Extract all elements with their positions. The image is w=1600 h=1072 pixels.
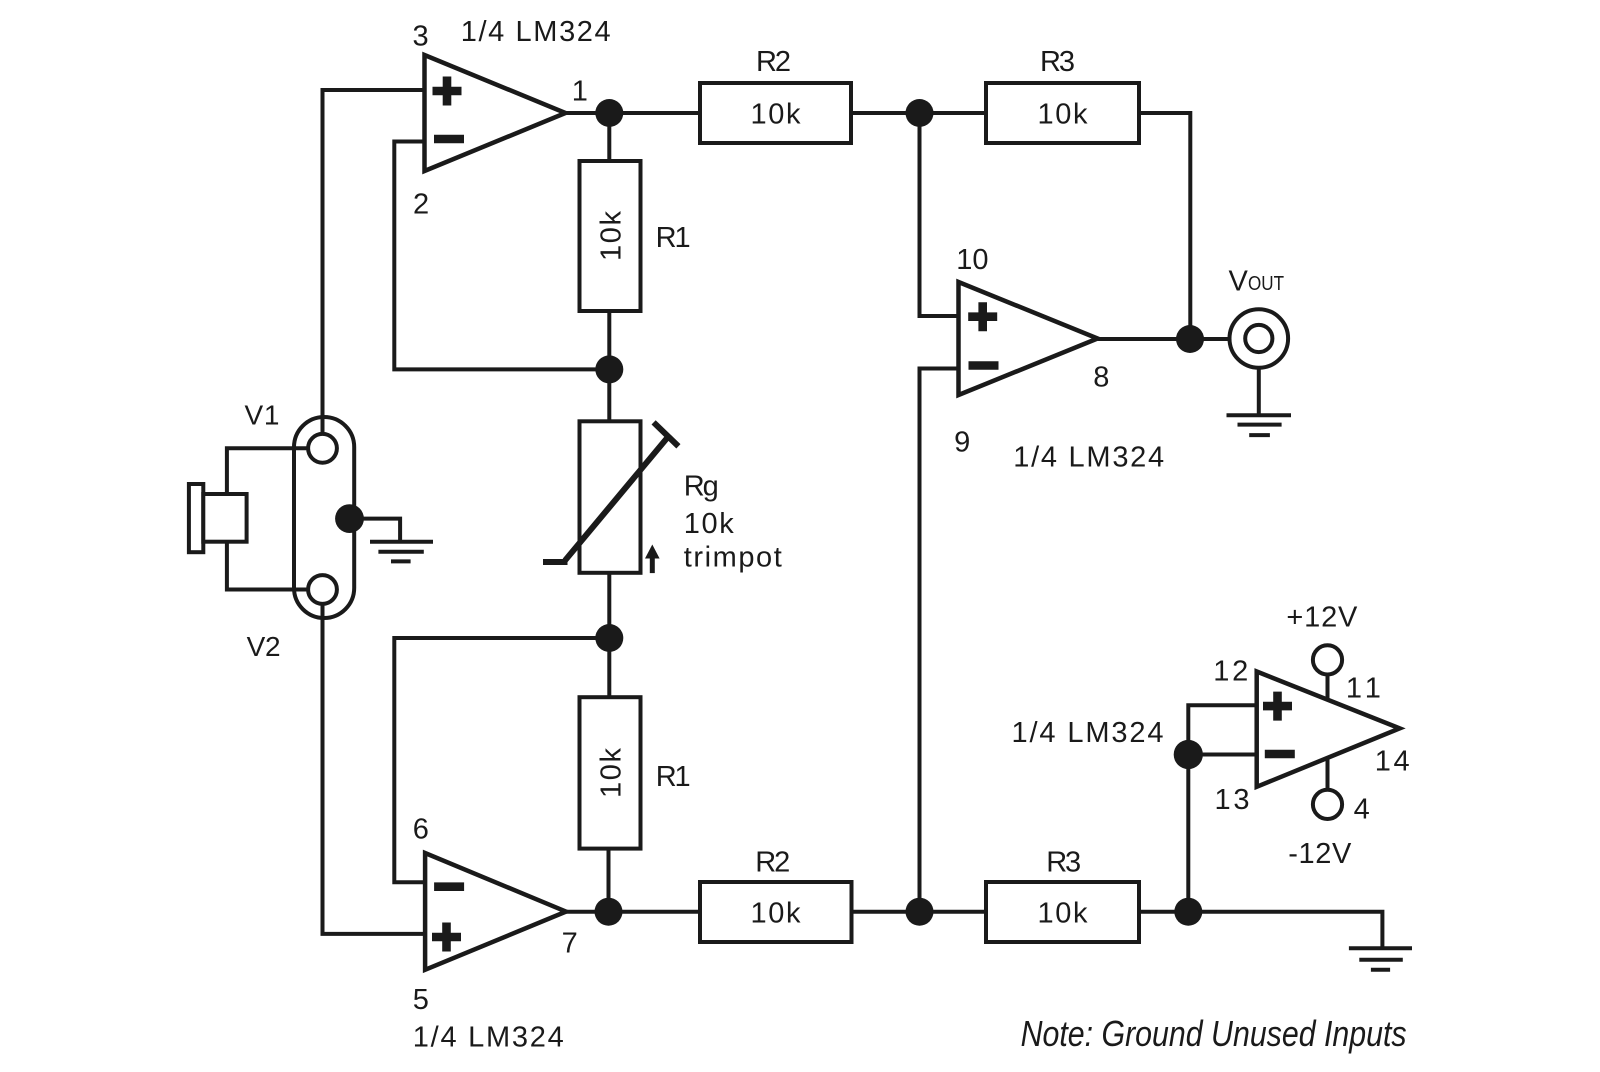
op-amp U1A + symbol — [433, 77, 462, 106]
svg-text:1/4 LM324: 1/4 LM324 — [461, 16, 611, 48]
resistor R3 lower box — [986, 882, 1139, 942]
wire op-amp U1A output pin 1 — [566, 111, 701, 115]
resistor R2 upper box — [700, 83, 851, 143]
terminal V1 — [308, 434, 337, 463]
svg-text:Rg: Rg — [684, 470, 719, 502]
transducer plate — [189, 484, 203, 552]
svg-text:3: 3 — [413, 21, 429, 53]
wire op-amp U1B output pin 7 to R2 — [566, 910, 700, 914]
svg-text:+12V: +12V — [1286, 602, 1358, 634]
svg-text:5: 5 — [413, 984, 429, 1016]
svg-text:10k: 10k — [1038, 99, 1089, 131]
svg-text:1/4 LM324: 1/4 LM324 — [1013, 442, 1164, 474]
wire transducer top to V1 terminal — [227, 448, 308, 494]
source oval V1/V2 — [294, 417, 354, 618]
svg-text:10k: 10k — [596, 211, 628, 262]
Vout jack outer circle — [1230, 309, 1289, 368]
Vout jack inner circle — [1245, 325, 1272, 352]
svg-text:R1: R1 — [656, 761, 691, 793]
wire bottom node up to op-amp U1C - input — [920, 369, 959, 912]
ground at source center tap — [370, 540, 433, 544]
op-amp U1C triangle — [959, 282, 1098, 395]
resistor R1 upper box — [580, 161, 641, 311]
svg-text:6: 6 — [413, 814, 429, 846]
svg-text:Note: Ground Unused Inputs: Note: Ground Unused Inputs — [1021, 1013, 1407, 1054]
wire top R3 right down to output node — [1139, 113, 1190, 339]
svg-text:10k: 10k — [751, 898, 802, 930]
op-amp U1C - symbol — [969, 361, 999, 370]
svg-text:OUT: OUT — [1248, 273, 1284, 295]
wire -12V pin 4 stem — [1326, 758, 1330, 790]
svg-text:V: V — [1229, 266, 1249, 298]
wire node pin1 down to R1 top — [607, 113, 611, 161]
svg-text:R3: R3 — [1040, 46, 1075, 78]
resistor R3 upper box — [986, 83, 1139, 143]
svg-text:10k: 10k — [596, 748, 628, 799]
svg-text:10k: 10k — [1038, 898, 1089, 930]
svg-text:-12V: -12V — [1288, 838, 1352, 870]
trimpot Rg small up arrow — [650, 556, 655, 573]
op-amp U1C + symbol — [968, 302, 997, 331]
op-amp U1A triangle — [425, 55, 566, 171]
op-amp U1B - symbol — [434, 882, 464, 891]
wire bottom R3 to right node and ground — [1139, 912, 1382, 948]
junction node source center tap — [335, 504, 364, 533]
terminal V2 — [308, 575, 337, 604]
junction node op-amp U1C output — [1176, 325, 1204, 353]
wire feedback node down to Rg top — [607, 369, 611, 421]
op-amp U1D - symbol — [1265, 750, 1295, 759]
junction node below Rg — [595, 624, 623, 652]
junction node pin 1 — [595, 99, 623, 127]
junction node below upper R1 — [595, 355, 623, 383]
junction node pin 7 — [595, 898, 623, 926]
svg-text:10k: 10k — [751, 99, 802, 131]
wire lower node down to second R1 top — [607, 638, 611, 697]
svg-text:R3: R3 — [1046, 847, 1081, 879]
wire second R1 bottom to pin 7 node — [607, 849, 611, 912]
svg-text:9: 9 — [954, 427, 970, 459]
svg-text:R2: R2 — [756, 46, 791, 78]
op-amp U1B triangle — [425, 853, 566, 970]
svg-text:R2: R2 — [755, 847, 790, 879]
resistor R1 lower box — [580, 697, 641, 848]
wire Rg bottom to lower node — [607, 573, 611, 638]
svg-text:1: 1 — [572, 76, 588, 108]
svg-text:7: 7 — [562, 927, 578, 959]
junction node bottom between R2 R3 — [906, 898, 934, 926]
wire Vout jack to ground — [1257, 368, 1261, 415]
wire lower node to op-amp U1B - input — [394, 638, 609, 882]
op-amp U1D + symbol — [1263, 692, 1292, 721]
-12V pin 4 terminal — [1313, 790, 1342, 819]
svg-text:2: 2 — [413, 189, 429, 221]
svg-text:1/4 LM324: 1/4 LM324 — [413, 1021, 564, 1053]
wire top R2 to top R3 — [851, 111, 986, 115]
transducer body — [203, 494, 246, 542]
wire source center tap to ground — [354, 519, 400, 542]
wire R1 bottom to feedback node — [607, 311, 611, 369]
wire op-amp U1A - input feedback to node below R1 — [394, 142, 609, 370]
wire right node up to op-amp U1D + input pin 12 — [1188, 705, 1256, 911]
wire node to op-amp U1D - input pin 13 — [1188, 753, 1256, 757]
svg-text:trimpot: trimpot — [684, 541, 782, 573]
+12V pin 11 terminal — [1313, 645, 1342, 674]
wire bottom R2 to bottom R3 — [852, 910, 987, 914]
junction node U1D inputs — [1174, 740, 1203, 769]
svg-text:4: 4 — [1354, 794, 1370, 826]
svg-text:10k: 10k — [684, 508, 735, 540]
ground under Vout jack — [1227, 413, 1292, 417]
svg-text:V2: V2 — [247, 631, 281, 662]
svg-text:V1: V1 — [245, 400, 280, 431]
svg-text:1/4 LM324: 1/4 LM324 — [1012, 717, 1164, 749]
wire V2 to op-amp U1B + input — [323, 604, 426, 934]
op-amp U1B + symbol — [432, 923, 461, 952]
wire op-amp U1C output pin 8 to Vout — [1098, 337, 1230, 341]
trimpot Rg wiper arrow diagonal — [543, 422, 678, 562]
wire +12V pin 11 stem — [1326, 675, 1330, 700]
wire V1 to op-amp U1A + input — [323, 90, 425, 434]
trimpot Rg box — [580, 421, 641, 573]
resistor R2 lower box — [700, 882, 852, 942]
ground at bottom right — [1349, 946, 1412, 950]
junction node bottom right of R3 — [1174, 898, 1202, 926]
wire transducer bottom to V2 terminal — [227, 542, 308, 590]
svg-text:10: 10 — [956, 244, 988, 276]
wire top node down to op-amp U1C + input — [920, 113, 959, 316]
junction node top between R2 R3 — [906, 99, 934, 127]
op-amp U1A - symbol — [434, 135, 464, 144]
op-amp U1D triangle — [1257, 672, 1400, 787]
svg-text:R1: R1 — [656, 222, 691, 254]
svg-text:8: 8 — [1093, 361, 1109, 393]
